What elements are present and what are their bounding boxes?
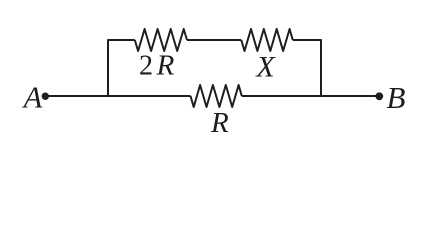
wire main left: node A to resistor R — [45, 95, 191, 97]
node A terminal dot — [42, 93, 49, 100]
resistor X — [241, 29, 292, 51]
wire main right: resistor R to node B — [242, 95, 380, 97]
node B terminal dot — [375, 92, 383, 100]
wire right vertical branch with corner to top rail — [293, 40, 321, 96]
svg-text:2: 2 — [139, 51, 153, 82]
svg-text:R: R — [210, 107, 229, 139]
resistor R — [191, 85, 242, 107]
svg-text:R: R — [156, 50, 175, 82]
svg-text:B: B — [387, 80, 406, 115]
resistor 2R — [135, 29, 187, 51]
wire top middle: between 2R and X — [187, 39, 241, 41]
wire left vertical branch with corner to top rail — [108, 40, 135, 96]
svg-text:A: A — [22, 81, 43, 115]
svg-text:X: X — [255, 51, 276, 84]
